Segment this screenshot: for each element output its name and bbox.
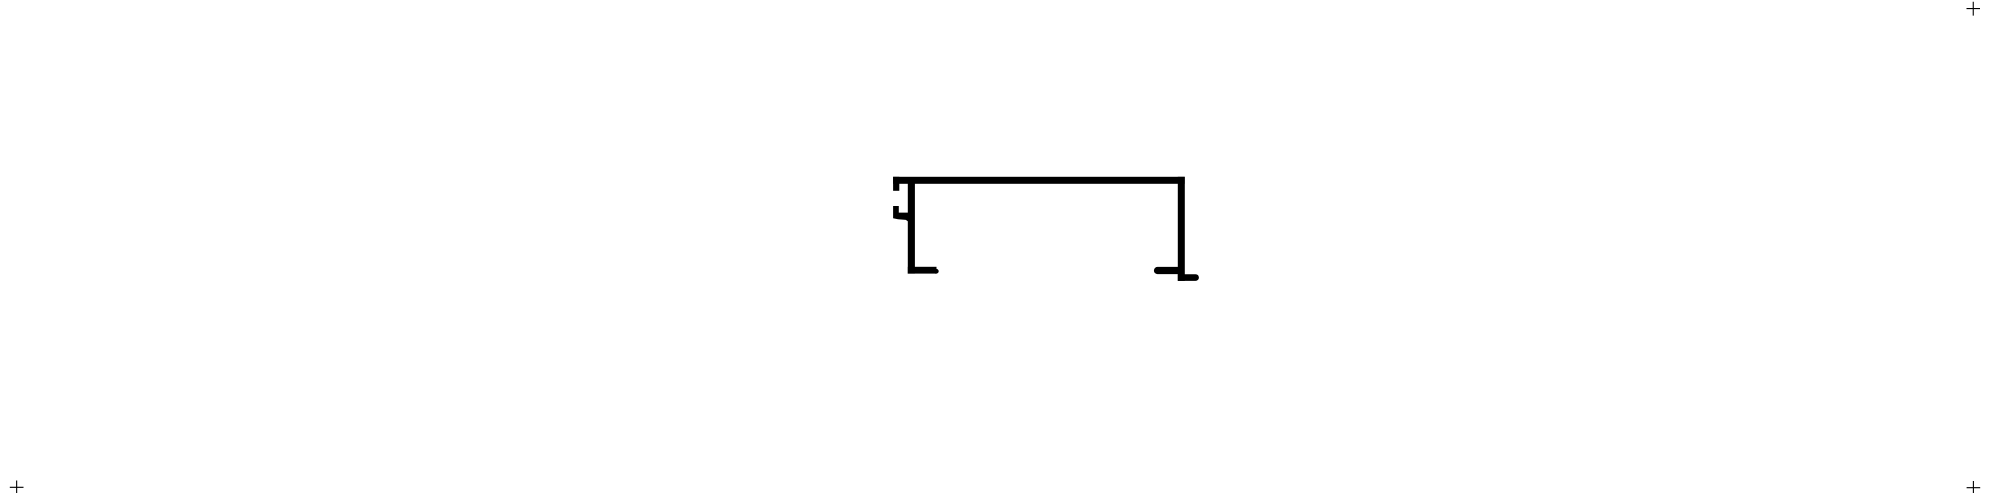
bottom-right inner foot (leftward, rounded left end): [1154, 267, 1180, 274]
bottom-right outer hook (rightward, rounded right end): [1178, 274, 1199, 281]
top flange: [893, 177, 1185, 184]
left glazing hook (up-stub + bar with fillet): [893, 206, 910, 223]
bottom-left foot: [908, 267, 937, 274]
aluminium profile cross-section, drawn in black: [893, 177, 1199, 281]
left wall: [908, 180, 915, 274]
bottom-left foot rounded tip: [935, 269, 939, 274]
registration mark bottom-left: [10, 481, 24, 493]
registration mark top-right: [1967, 2, 1981, 16]
top-left lip stub (downward): [893, 177, 899, 191]
right wall: [1178, 177, 1185, 281]
registration mark bottom-right: [1967, 481, 1981, 493]
